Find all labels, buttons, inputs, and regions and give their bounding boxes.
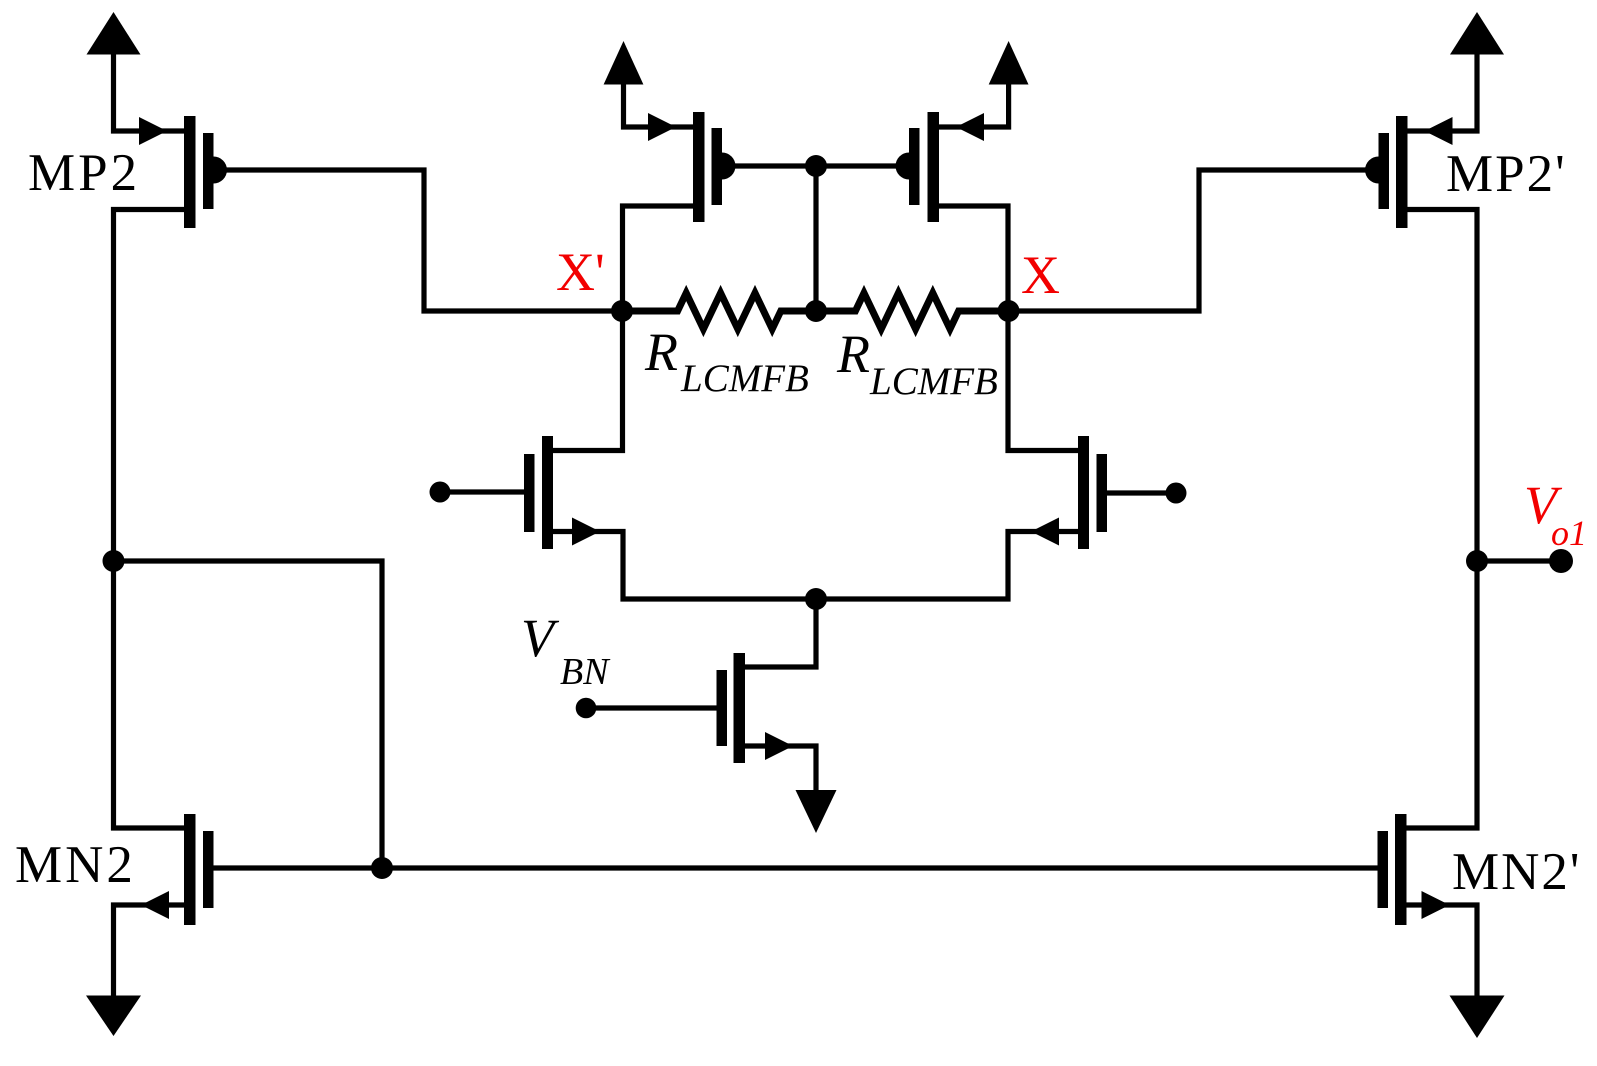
- wire: X column (top PMOS drain to diff pair drain): [939, 206, 1078, 451]
- node: VBN input terminal dot: [576, 698, 597, 719]
- transistor MP2' gate contact bubble: [1365, 157, 1379, 184]
- wire: M5 source to ground: [745, 746, 816, 791]
- node: resistor midpoint junction dot: [805, 300, 827, 322]
- wire: output stub to Vo1 terminal: [1477, 558, 1561, 563]
- transistor M3 source arrow: [648, 113, 676, 141]
- transistor MN2 gate bar: [203, 831, 214, 908]
- transistor M4 (center-right PMOS) channel bar: [928, 112, 940, 222]
- node B: junction dot on MN2-MN2p gate line: [371, 857, 393, 879]
- svg-text:BN: BN: [560, 651, 611, 693]
- svg-text:MN2': MN2': [1452, 843, 1581, 901]
- transistor M3 gate contact bubble: [722, 153, 736, 180]
- ground symbol below MN2': [1450, 996, 1505, 1039]
- transistor MP2 source arrow: [139, 117, 167, 145]
- wire: M2 gate input lead: [1107, 490, 1176, 495]
- node X junction dot: [998, 300, 1020, 322]
- wire: long gate line MN2 to MN2': [214, 865, 1378, 870]
- transistor M3 gate bar: [712, 128, 723, 205]
- svg-text:MP2: MP2: [28, 144, 140, 202]
- transistor MP2 gate bar: [203, 133, 214, 209]
- transistor M4 source arrow: [956, 113, 984, 141]
- wire: center column from gate node down to resistor midpoint: [813, 166, 818, 311]
- svg-text:R: R: [836, 324, 870, 384]
- resistor R_LCMFB left (node X' to center): [622, 293, 816, 329]
- wire: MP2' drain rail down right side to MN2' drain: [1407, 210, 1478, 829]
- transistor MP2 gate contact bubble: [214, 157, 228, 184]
- wire: MP2 source to VDD rail: [114, 54, 185, 131]
- node X' junction dot: [611, 300, 633, 322]
- node: output junction dot on right rail: [1466, 550, 1488, 572]
- transistor MN2 source arrow: [141, 891, 169, 919]
- wire: left feedback branch from node A to MN2 gate line: [114, 561, 383, 868]
- wire: MP2 drain rail down left side to MN2 drain: [114, 210, 185, 829]
- svg-text:LCMFB: LCMFB: [680, 357, 809, 400]
- wire: diff pair sources to common tail: [553, 532, 1078, 600]
- transistor M5 gate bar: [717, 670, 728, 746]
- node: tail junction dot: [805, 588, 827, 610]
- power VDD symbol above center-right PMOS: [989, 41, 1029, 85]
- svg-text:MP2': MP2': [1446, 145, 1567, 203]
- transistor M2 gate bar: [1097, 454, 1108, 532]
- transistor MN2' (NMOS) channel bar: [1395, 814, 1407, 925]
- transistor M2 source arrow: [1031, 518, 1059, 546]
- transistor M1 (left diff pair NMOS) channel bar: [542, 436, 553, 549]
- svg-text:R: R: [644, 322, 678, 382]
- wire: MN2 source to ground: [114, 905, 185, 996]
- node: Vo1 terminal dot: [1549, 549, 1573, 573]
- transistor M4 gate contact bubble: [896, 153, 909, 180]
- svg-text:X: X: [1021, 245, 1060, 305]
- power VDD symbol above center-left PMOS: [604, 41, 644, 85]
- resistor R_LCMFB right (center to node X): [816, 293, 1009, 329]
- node: gate junction dot of center PMOS pair: [805, 155, 827, 177]
- transistor MP2 (PMOS) channel bar: [184, 116, 196, 228]
- wire: VBN gate lead: [586, 705, 717, 710]
- wire: center-right PMOS source to VDD: [939, 84, 1009, 127]
- transistor M1 gate bar: [524, 454, 535, 532]
- transistor M5 source arrow: [765, 732, 793, 760]
- node A: junction dot on left rail (MP2 drain / MN2 gate feedback): [103, 550, 125, 572]
- ground symbol below MN2: [86, 996, 141, 1037]
- wire: MP2 gate to node X': [224, 170, 618, 311]
- power VDD symbol above MP2': [1450, 12, 1504, 55]
- transistor M5 (tail current source NMOS) channel bar: [734, 653, 746, 763]
- transistor M3 (center-left PMOS) channel bar: [693, 112, 705, 222]
- node: M2 gate input terminal dot: [1166, 483, 1187, 504]
- transistor MP2' (PMOS) channel bar: [1396, 116, 1408, 228]
- wire: M1 gate input lead: [440, 489, 524, 494]
- svg-text:MN2: MN2: [15, 836, 136, 894]
- transistor MN2' gate bar: [1378, 831, 1389, 908]
- transistor MN2' source arrow: [1422, 891, 1450, 919]
- transistor MP2' gate bar: [1379, 133, 1390, 209]
- wire: MN2' source to ground: [1407, 905, 1478, 996]
- svg-text:X': X': [556, 242, 605, 302]
- svg-text:o1: o1: [1551, 513, 1587, 553]
- transistor M1 source arrow: [572, 518, 600, 546]
- wire: tail down to M5 drain: [745, 599, 816, 667]
- svg-text:LCMFB: LCMFB: [869, 360, 998, 403]
- wire: common gate wire of center PMOS pair: [735, 163, 896, 168]
- transistor M2 (right diff pair NMOS) channel bar: [1078, 436, 1089, 549]
- transistor MN2 (NMOS) channel bar: [184, 814, 196, 925]
- wire: X' column (top PMOS drain to diff pair drain): [553, 206, 693, 451]
- wire: MP2' source to VDD rail: [1408, 54, 1478, 131]
- transistor M4 gate bar: [909, 128, 920, 205]
- ground symbol below M5: [796, 790, 837, 833]
- power VDD symbol above MP2: [87, 12, 141, 55]
- transistor MP2' source arrow: [1425, 117, 1453, 145]
- wire: node X to MP2' gate: [1009, 170, 1367, 311]
- node: M1 gate input terminal dot: [430, 482, 451, 503]
- wire: center-left PMOS source to VDD: [624, 84, 694, 127]
